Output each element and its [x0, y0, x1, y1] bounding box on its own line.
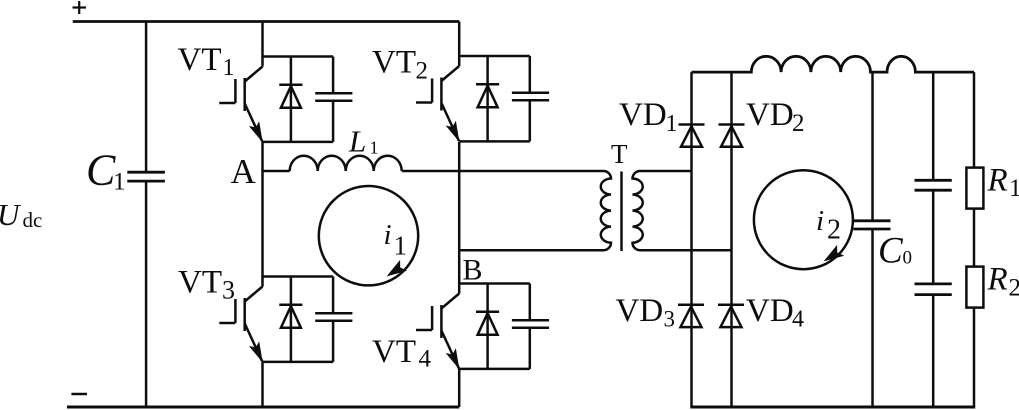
svg-text:3: 3 — [222, 276, 235, 305]
resistor R1 — [966, 168, 983, 209]
diode VD3 — [678, 305, 704, 327]
svg-text:3: 3 — [664, 307, 676, 332]
wire VT2 cell top — [459, 55, 530, 58]
svg-text:1: 1 — [370, 137, 379, 157]
capacitor upper filter — [915, 180, 952, 190]
current loop i1 — [319, 186, 418, 285]
wire cap branch lower — [932, 295, 935, 407]
wire right leg middle — [458, 142, 461, 294]
label VD2 — [746, 97, 805, 137]
diode antiparallel of VT4 — [476, 284, 499, 369]
wire DC bottom bus - — [67, 406, 459, 409]
label VT4 — [372, 334, 432, 373]
node A label — [231, 152, 257, 191]
wire secondary bottom — [640, 249, 732, 252]
diode VD1 — [679, 125, 705, 147]
arrow i1 direction — [388, 261, 406, 275]
capacitor snubber of VT2 — [512, 56, 549, 141]
resistor R2 — [966, 267, 983, 308]
wire VT1 cell bottom — [263, 141, 334, 144]
diode antiparallel of VT2 — [476, 56, 499, 141]
node B label — [463, 253, 483, 286]
svg-text:1: 1 — [1009, 175, 1019, 202]
wire VT4 cell bottom — [459, 368, 530, 371]
wire VD2 VD4 branch — [730, 72, 733, 407]
transistor VT4 — [416, 294, 459, 369]
svg-text:U: U — [0, 197, 22, 232]
diode VD4 — [718, 305, 744, 327]
wire right leg bottom — [458, 368, 461, 407]
current loop i2 — [754, 170, 853, 269]
wire left leg top — [261, 22, 264, 67]
label i2 — [816, 205, 841, 246]
svg-text:i: i — [816, 205, 824, 237]
wire C1 branch lower — [145, 181, 148, 407]
diode VD2 — [719, 125, 745, 147]
wire node B to transformer primary — [459, 249, 603, 252]
wire node A to L1 — [263, 170, 290, 173]
transistor VT1 — [219, 67, 262, 142]
minus terminal mark — [71, 393, 87, 396]
svg-text:T: T — [611, 139, 628, 169]
capacitor snubber of VT1 — [315, 57, 352, 142]
label VD1 — [619, 97, 678, 137]
svg-text:VD: VD — [619, 97, 667, 133]
wire left leg bottom — [261, 362, 264, 407]
svg-text:VT: VT — [372, 334, 416, 370]
label C1 — [86, 146, 126, 196]
svg-text:L: L — [348, 124, 366, 159]
wire L1 to transformer primary — [402, 170, 604, 173]
svg-text:VT: VT — [178, 264, 222, 300]
capacitor C0 — [853, 221, 890, 229]
capacitor snubber of VT4 — [512, 284, 549, 369]
wire VT2 cell bottom — [459, 140, 530, 143]
svg-text:VT: VT — [178, 42, 222, 78]
wire left leg middle — [261, 142, 264, 287]
transistor VT3 — [219, 287, 262, 362]
wire VD1 VD3 branch — [690, 72, 693, 407]
wire R branch top — [973, 72, 976, 168]
svg-text:4: 4 — [419, 345, 432, 372]
wire DC top bus + — [73, 20, 460, 23]
svg-text:1: 1 — [113, 168, 126, 195]
svg-text:4: 4 — [792, 307, 804, 333]
wire rectifier top bus — [692, 56, 975, 72]
transistor VT2 — [416, 66, 459, 141]
transformer T core — [620, 172, 623, 252]
svg-text:2: 2 — [416, 58, 429, 85]
label Udc — [0, 197, 42, 232]
label VD4 — [746, 293, 804, 333]
wire R branch bottom — [973, 308, 976, 407]
label VD3 — [616, 293, 676, 332]
wire VT3 cell bottom — [263, 361, 334, 364]
svg-text:VT: VT — [372, 45, 416, 81]
label VT3 — [178, 264, 235, 304]
svg-text:C: C — [86, 146, 116, 195]
wire C1 branch upper — [145, 22, 148, 173]
svg-text:2: 2 — [792, 110, 805, 137]
label T — [611, 139, 628, 169]
svg-text:R: R — [987, 163, 1008, 199]
plus terminal mark — [73, 1, 87, 14]
label C0 — [878, 230, 912, 271]
wire VT1 cell top — [263, 55, 334, 58]
inductor L1 — [290, 156, 402, 171]
label VT2 — [372, 45, 428, 85]
diode antiparallel of VT1 — [279, 57, 302, 142]
wire C0 branch lower — [871, 229, 874, 407]
svg-text:VD: VD — [746, 293, 794, 329]
wire secondary top — [640, 170, 692, 173]
svg-text:C: C — [878, 230, 904, 271]
svg-text:0: 0 — [903, 248, 913, 269]
wire rectifier bottom bus — [690, 406, 975, 409]
svg-text:R: R — [987, 262, 1008, 298]
svg-text:A: A — [231, 152, 257, 191]
label VT1 — [178, 42, 235, 81]
svg-text:2: 2 — [827, 215, 841, 246]
wire C0 branch upper — [871, 72, 874, 221]
svg-text:VD: VD — [746, 97, 794, 133]
svg-text:2: 2 — [1009, 275, 1019, 302]
label R2 — [987, 262, 1019, 302]
svg-text:dc: dc — [23, 208, 43, 232]
label i1 — [384, 219, 408, 260]
wire right leg top — [458, 22, 461, 67]
svg-text:1: 1 — [666, 111, 678, 137]
wire cap branch middle — [932, 190, 935, 284]
transformer T primary winding — [601, 171, 611, 250]
label L1 — [348, 124, 379, 159]
transformer T secondary winding — [633, 171, 643, 250]
wire VT4 cell top — [459, 282, 530, 285]
arrow i2 direction — [825, 246, 843, 260]
label R1 — [987, 163, 1019, 203]
svg-text:1: 1 — [394, 230, 408, 260]
wire VT3 cell top — [263, 275, 334, 278]
svg-text:1: 1 — [223, 55, 235, 81]
diode antiparallel of VT3 — [279, 277, 302, 362]
capacitor lower filter — [915, 284, 952, 295]
svg-text:i: i — [384, 219, 392, 251]
wire cap branch upper — [932, 72, 935, 180]
svg-text:VD: VD — [616, 293, 664, 329]
capacitor C1 — [127, 172, 165, 181]
wire R branch middle — [973, 209, 976, 267]
capacitor snubber of VT3 — [315, 277, 352, 362]
svg-text:B: B — [463, 253, 483, 286]
